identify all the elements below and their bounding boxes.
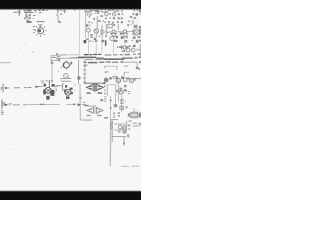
wire vertical x52 with arrow xyxy=(51,60,53,83)
wire dashed continuation into Q1 stage xyxy=(28,86,39,89)
wire y12 top cluster xyxy=(28,11,36,13)
faint marks x128-132 y120 xyxy=(129,120,132,121)
dust dot 4 xyxy=(62,152,63,153)
transistor Q5 xyxy=(87,28,91,34)
wire bus vertical x80 lower xyxy=(79,84,81,120)
label text row B right dashes xyxy=(122,57,141,59)
IF block row3 marks xyxy=(105,21,123,23)
label plus marks left stage xyxy=(56,13,62,16)
label row y41 xyxy=(89,40,141,43)
resistor R2 marks xyxy=(28,12,41,19)
marks small column x104 xyxy=(104,86,106,95)
transistor Q15 xyxy=(121,76,127,81)
wire drop x102 xyxy=(101,38,103,53)
transistor Q2 xyxy=(87,10,91,18)
wire vertical x133 xyxy=(132,20,134,24)
label text row C y62 xyxy=(84,61,123,63)
label right of C8 xyxy=(126,106,128,108)
resistor R10 hatch xyxy=(120,99,124,103)
label plus mark xyxy=(26,16,28,18)
tick marks right of Q12 xyxy=(74,84,75,90)
wire rail y58 left xyxy=(56,57,84,59)
wire vertical x112 bottom cluster xyxy=(111,120,113,142)
label text above Q11 xyxy=(41,80,48,83)
resistor R3 xyxy=(100,15,103,16)
transistor Q17 xyxy=(116,85,126,94)
label M1 xyxy=(117,46,123,48)
label text row A y54.5 bold left xyxy=(84,54,101,56)
arrow blob at ladder crossing xyxy=(78,103,82,106)
wire crossing stub right of ladder xyxy=(82,102,86,104)
label text row B y59 dark middle xyxy=(104,58,125,60)
diode D2 xyxy=(110,126,112,128)
bracket right of Q11 xyxy=(55,88,58,93)
wire drop x137 xyxy=(136,62,138,68)
tube V1 xyxy=(61,60,72,69)
wire vertical x58 xyxy=(57,17,59,23)
bottom black band xyxy=(0,191,143,202)
label text dark segment x78-96 xyxy=(78,57,97,58)
capacitor C4 xyxy=(95,12,100,14)
label right y62 xyxy=(139,61,141,63)
label squiggle row under band xyxy=(84,10,116,12)
schematic ink group xyxy=(0,10,141,167)
corner mark top right xyxy=(138,68,140,70)
label under band q2 xyxy=(86,10,103,13)
marks top right of U2 xyxy=(84,99,103,106)
marks right of Q8 xyxy=(122,45,135,52)
resistor R4 dash xyxy=(128,20,131,22)
label C near staple xyxy=(105,71,108,73)
tick x33 y52 xyxy=(33,51,35,54)
transistor Q14 xyxy=(116,77,121,83)
wire vertical x97 xyxy=(96,16,98,30)
transistor Q11 xyxy=(43,80,54,100)
capacitor C2 xyxy=(24,15,28,20)
label left marks xyxy=(29,21,32,23)
node dot right rail xyxy=(103,82,105,84)
section divider vertical x110.5 xyxy=(109,120,111,166)
op-amp U2b right triangle xyxy=(96,107,103,113)
top black band xyxy=(0,0,143,9)
wire drop x125 xyxy=(124,37,126,44)
section divider dashes bottom right xyxy=(121,165,139,167)
tick x125 y101 xyxy=(125,101,126,102)
switch S1 label xyxy=(38,24,42,26)
jack J1 xyxy=(1,84,3,93)
wire rail y130 xyxy=(114,129,126,131)
wire rail y124 xyxy=(114,123,126,125)
label U1b xyxy=(98,92,102,93)
label U2a xyxy=(87,115,91,116)
arrowhead A1 xyxy=(5,87,8,89)
capacitor C8 box xyxy=(120,106,124,109)
transistor Q6 xyxy=(94,29,98,38)
label text mid segment x96-104 xyxy=(96,58,104,59)
wire vertical x122 xyxy=(121,96,123,112)
label marks mid xyxy=(88,18,104,24)
switch S1 rotary xyxy=(35,25,47,37)
wire rail y58 dark right part xyxy=(70,57,77,59)
node blob y39 xyxy=(86,38,97,40)
transistor Q4 xyxy=(112,12,116,16)
wire drop x113.6 xyxy=(113,37,115,53)
marks near lamp xyxy=(105,32,123,39)
marks right of R11 xyxy=(139,113,141,118)
wire dashed signal line lower (y105) xyxy=(13,104,28,106)
node stub vertical dark x105.5 xyxy=(105,40,107,46)
antenna tap cross xyxy=(63,10,67,14)
node dots x110.5 xyxy=(110,100,112,102)
wire vertical x118.5 xyxy=(118,84,120,102)
transistor Q7 xyxy=(110,37,114,41)
volume ladder VR1 xyxy=(77,60,86,84)
page fold line xyxy=(78,10,80,55)
wire dark segment on y104 xyxy=(40,103,45,105)
resistor R5 vertical xyxy=(101,25,103,38)
wire section border x85.5 xyxy=(85,10,87,38)
resistor R1 xyxy=(24,10,28,13)
arrowhead A2 xyxy=(36,86,39,88)
op-amp U1b right triangle xyxy=(96,84,103,90)
node blob x137 y68 xyxy=(136,67,139,69)
tuning indicator cluster xyxy=(133,25,141,35)
wire dashed signal line upper (y88) xyxy=(5,87,28,89)
wire vertical x26.8 xyxy=(26,10,28,23)
label rows above Q12 xyxy=(60,78,71,82)
label SERVICE text dash xyxy=(37,21,45,23)
marks y36-39 right xyxy=(126,36,140,39)
speaker SP circle xyxy=(134,29,140,35)
dense IF block row1 xyxy=(105,10,123,12)
wire label C xyxy=(9,103,12,105)
capacitor C7 blob xyxy=(114,104,117,107)
label faint y65 left xyxy=(84,65,128,67)
IF transformer T1 xyxy=(106,24,118,36)
transistor Q18 xyxy=(118,125,122,129)
resistor R8 hatch xyxy=(104,97,106,102)
wire tick x74 xyxy=(74,10,75,11)
wire rail y62 right xyxy=(122,61,137,63)
right edge dark blob xyxy=(139,29,141,35)
wire vertical x134 stub xyxy=(133,108,135,112)
op-amp U2a left triangle xyxy=(87,107,94,113)
label small text left edge y54 xyxy=(56,53,66,55)
wire rail y78.5 to right edge xyxy=(128,78,141,80)
dust dot 1 xyxy=(20,48,21,49)
wire rail y55 x66-80 xyxy=(60,54,80,56)
wire dashes y119.5 xyxy=(84,119,118,122)
small text col left of switch xyxy=(33,26,36,33)
node blob x59.5 y22 xyxy=(59,21,61,23)
capacitor C5 bracket xyxy=(120,45,122,50)
node 4 dark blob xyxy=(84,40,87,43)
bracket staple x124 y72 xyxy=(124,72,129,76)
dust dot 2 xyxy=(24,42,27,45)
wire drop x96.2 xyxy=(95,38,97,54)
wire vertical x95 U1 xyxy=(94,83,96,92)
tube V2 xyxy=(64,73,69,78)
resistor R6 dash xyxy=(137,49,140,51)
wire rail y83 over U1 xyxy=(84,82,104,84)
wire bus y31.8 xyxy=(104,31,134,33)
transistor Q13 xyxy=(104,77,112,82)
op-amp U1a left triangle xyxy=(87,84,94,90)
top right corner marks xyxy=(130,10,141,19)
wire gray stub top-left margin xyxy=(0,62,11,64)
wire vertical x110.5 mid xyxy=(110,96,112,120)
faint marks right mid xyxy=(133,122,141,126)
wire drop x124 with arrow xyxy=(123,137,125,146)
node blob Q area xyxy=(27,20,29,23)
transformer T2 outline xyxy=(107,85,116,96)
marks x104-108 y117 xyxy=(104,117,108,119)
label U2b xyxy=(97,115,102,116)
resistor R9 dashes xyxy=(128,92,131,94)
label U1a xyxy=(87,92,91,93)
transistor Q10 xyxy=(131,48,135,52)
IF block row2 marks xyxy=(105,13,123,19)
arrowhead A3 xyxy=(5,104,8,106)
label marks y35 xyxy=(90,34,100,38)
bracket staple over Q13 xyxy=(104,66,117,70)
capacitor C3 xyxy=(57,10,62,13)
transistor Q12 xyxy=(64,85,73,99)
wire vertical x126.4 xyxy=(125,121,127,132)
capacitor C1 xyxy=(18,10,21,17)
wire drop x88.4 xyxy=(87,32,89,54)
tuning eye E1 xyxy=(111,30,116,37)
wire corner bottom-left of section xyxy=(80,119,92,121)
tuning eye E2 xyxy=(122,30,127,37)
marks right of Q19 xyxy=(127,124,130,137)
wire stub top-left xyxy=(14,11,18,13)
transistor Q16 xyxy=(127,77,136,83)
wire rail y106 over U2 xyxy=(84,105,96,107)
tick x58 y71 xyxy=(58,71,59,72)
top cluster A under band xyxy=(28,10,48,12)
tick cross x80 y98 xyxy=(79,97,82,99)
jack J2 label xyxy=(1,111,4,115)
node blob on y104 xyxy=(73,104,76,106)
resistor R7 box xyxy=(113,76,116,78)
label text row B y59 light xyxy=(85,59,103,60)
wire leads y86 around Q11 xyxy=(39,85,59,87)
jack J2 xyxy=(1,99,4,109)
wire faint long segment y104 xyxy=(28,103,73,105)
marks second band row xyxy=(86,24,132,27)
wire vertical x115.5 xyxy=(115,96,117,104)
test box TB1 xyxy=(51,56,60,62)
transistor Q3 xyxy=(105,13,111,16)
diode D1 xyxy=(110,122,112,124)
wire vertical right edge x140 xyxy=(139,44,141,57)
resistor R11 hatched box xyxy=(131,112,138,118)
marks x113-119 y112-118 xyxy=(113,112,120,118)
transistor Q9 xyxy=(126,48,130,52)
dust dot 3 xyxy=(10,149,11,150)
wire lead into bracket xyxy=(56,85,62,87)
marks left of R11 xyxy=(128,113,130,117)
label text row A y55 light middle xyxy=(105,53,141,55)
capacitor C6 bracket xyxy=(63,84,65,90)
wire vertical x95 U2 xyxy=(94,106,96,114)
transistor Q8 xyxy=(123,46,126,49)
transistor Q19 xyxy=(118,126,127,134)
wire rail y136.5 xyxy=(112,136,126,138)
